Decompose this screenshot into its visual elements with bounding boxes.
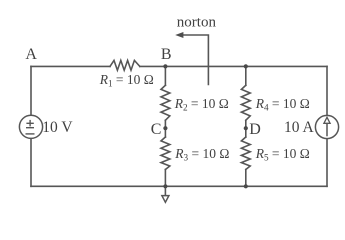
current source I1 circle — [315, 115, 338, 138]
voltage source V1 circle — [19, 115, 42, 138]
resistor R4 — [241, 85, 250, 120]
node D junction dot — [244, 126, 248, 130]
svg-text:A: A — [25, 46, 37, 63]
wire B to R2 — [164, 66, 166, 85]
ground — [162, 196, 169, 203]
svg-text:D: D — [249, 121, 261, 138]
wire left lower (voltage source to bottom wire) — [30, 138, 32, 186]
svg-text:10 V: 10 V — [42, 119, 73, 136]
svg-text:norton: norton — [177, 14, 217, 30]
current source arrow — [324, 117, 330, 136]
svg-text:R3 = 10 Ω: R3 = 10 Ω — [174, 146, 229, 163]
svg-text:R4 = 10 Ω: R4 = 10 Ω — [255, 96, 310, 113]
resistor R5 — [241, 137, 250, 170]
norton arrow — [183, 35, 208, 85]
wire R5 to bottom — [245, 170, 247, 187]
svg-text:R1 = 10 Ω: R1 = 10 Ω — [99, 72, 154, 89]
wire bottom — [31, 185, 327, 187]
bottom junction dot (R5 branch) — [244, 184, 248, 188]
voltage source plus/minus marks — [26, 120, 35, 134]
wire right upper (top-right corner to current source) — [326, 66, 328, 115]
wire top (A to top-right corner) — [31, 65, 110, 67]
node C junction dot — [163, 126, 167, 130]
svg-text:B: B — [161, 46, 172, 63]
svg-text:10 A: 10 A — [284, 119, 315, 136]
bottom junction dot (middle branch) — [163, 184, 167, 188]
wire R2 to R3 through node C — [164, 120, 166, 137]
node top junction dot (R4 branch) — [244, 64, 248, 68]
wire R4 to R5 through node D — [245, 120, 247, 137]
svg-text:R2 = 10 Ω: R2 = 10 Ω — [174, 96, 229, 113]
wire top junction to R4 — [245, 66, 247, 85]
node B junction dot — [163, 64, 167, 68]
wire left (node A down to voltage source) — [30, 66, 32, 115]
resistor R2 — [161, 85, 170, 120]
wire R3 to bottom — [164, 170, 166, 187]
wire right lower (current source to bottom wire) — [326, 139, 328, 187]
resistor R1 — [110, 60, 140, 70]
svg-text:C: C — [151, 121, 162, 138]
svg-text:R5 = 10 Ω: R5 = 10 Ω — [255, 146, 310, 163]
resistor R3 — [161, 137, 170, 170]
ground stub — [164, 186, 166, 195]
